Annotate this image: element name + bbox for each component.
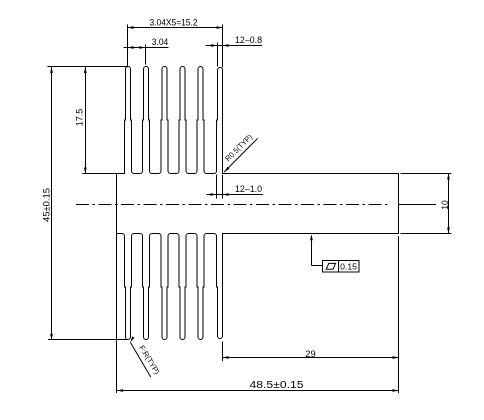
- extension line fin6 left tip: [217, 43, 219, 67]
- arrow left 48.5: [117, 389, 123, 392]
- centerline: [76, 204, 390, 206]
- dim line 10: [448, 174, 450, 234]
- svg-text:10: 10: [440, 200, 450, 210]
- svg-text:12–0.8: 12–0.8: [235, 35, 262, 45]
- centerline stub right: [399, 204, 437, 206]
- leader R0.5: [224, 138, 258, 172]
- svg-text:48.5±0.15: 48.5±0.15: [250, 380, 305, 391]
- heatsink profile outline: [117, 67, 399, 340]
- dim line 12-1.0: [207, 194, 264, 196]
- dim line 29: [223, 357, 399, 359]
- arrow top 17.5: [84, 67, 87, 73]
- flatness symbol parallelogram: [326, 263, 335, 269]
- arrow bottom 45: [50, 334, 53, 340]
- flatness arrow: [310, 234, 313, 240]
- arrow bottom 10: [447, 228, 450, 234]
- arrow left 12-0.8: [211, 44, 217, 47]
- extension line fin6 right: [222, 25, 224, 68]
- extension line fin1 top: [127, 25, 129, 68]
- extension line part left bottom: [116, 234, 118, 394]
- arrow left 29: [223, 356, 229, 359]
- flatness leader vertical: [311, 236, 313, 266]
- extension line fin base left: [82, 173, 116, 175]
- leader F:R: [130, 342, 150, 377]
- svg-text:R0.5(TYP): R0.5(TYP): [223, 132, 254, 163]
- arrow top 10: [447, 174, 450, 180]
- arrow F:R: [130, 336, 134, 342]
- svg-text:29: 29: [305, 349, 316, 359]
- extension line top of part: [48, 66, 129, 68]
- dim line 45±0.15: [51, 67, 53, 340]
- extension line fin6 root right: [222, 175, 224, 199]
- extension line fin block right: [222, 342, 224, 362]
- dim line 3.04: [124, 47, 169, 49]
- svg-text:45±0.15: 45±0.15: [41, 188, 51, 222]
- svg-text:3.04X5=15.2: 3.04X5=15.2: [150, 16, 198, 27]
- arrow right 12-1.0: [223, 193, 229, 196]
- svg-text:12–1.0: 12–1.0: [235, 184, 262, 194]
- arrow right 3.04: [139, 46, 145, 49]
- dim line 48.5±0.15: [117, 390, 399, 392]
- arrow right 15.2: [217, 26, 223, 29]
- dim line 17.5: [85, 67, 87, 174]
- svg-text:3.04: 3.04: [152, 37, 169, 47]
- svg-text:0.15: 0.15: [340, 262, 357, 272]
- svg-text:17.5: 17.5: [74, 109, 84, 127]
- arrow bottom 17.5: [84, 168, 87, 174]
- arrow right 29: [393, 356, 399, 359]
- arrow R0.5: [224, 167, 229, 172]
- extension line tongue top: [401, 173, 452, 175]
- extension line tongue right: [398, 236, 400, 393]
- dim line 12-0.8: [206, 45, 263, 47]
- arrow left 12-1.0: [210, 193, 216, 196]
- arrow top 45: [50, 67, 53, 73]
- flatness frame box: [323, 261, 360, 273]
- arrow right 12-0.8: [223, 44, 229, 47]
- arrow left 15.2: [128, 26, 134, 29]
- arrow right 48.5: [393, 389, 399, 392]
- extension line bottom of part: [48, 339, 128, 341]
- extension line fin6 root left: [216, 175, 218, 199]
- extension line fin2: [145, 45, 147, 65]
- flatness frame divider: [338, 261, 340, 273]
- arrow left 3.04: [128, 46, 134, 49]
- dim line 3.04X5=15.2: [128, 27, 223, 29]
- flatness leader horizontal: [311, 265, 322, 267]
- extension line tongue bottom: [401, 233, 452, 235]
